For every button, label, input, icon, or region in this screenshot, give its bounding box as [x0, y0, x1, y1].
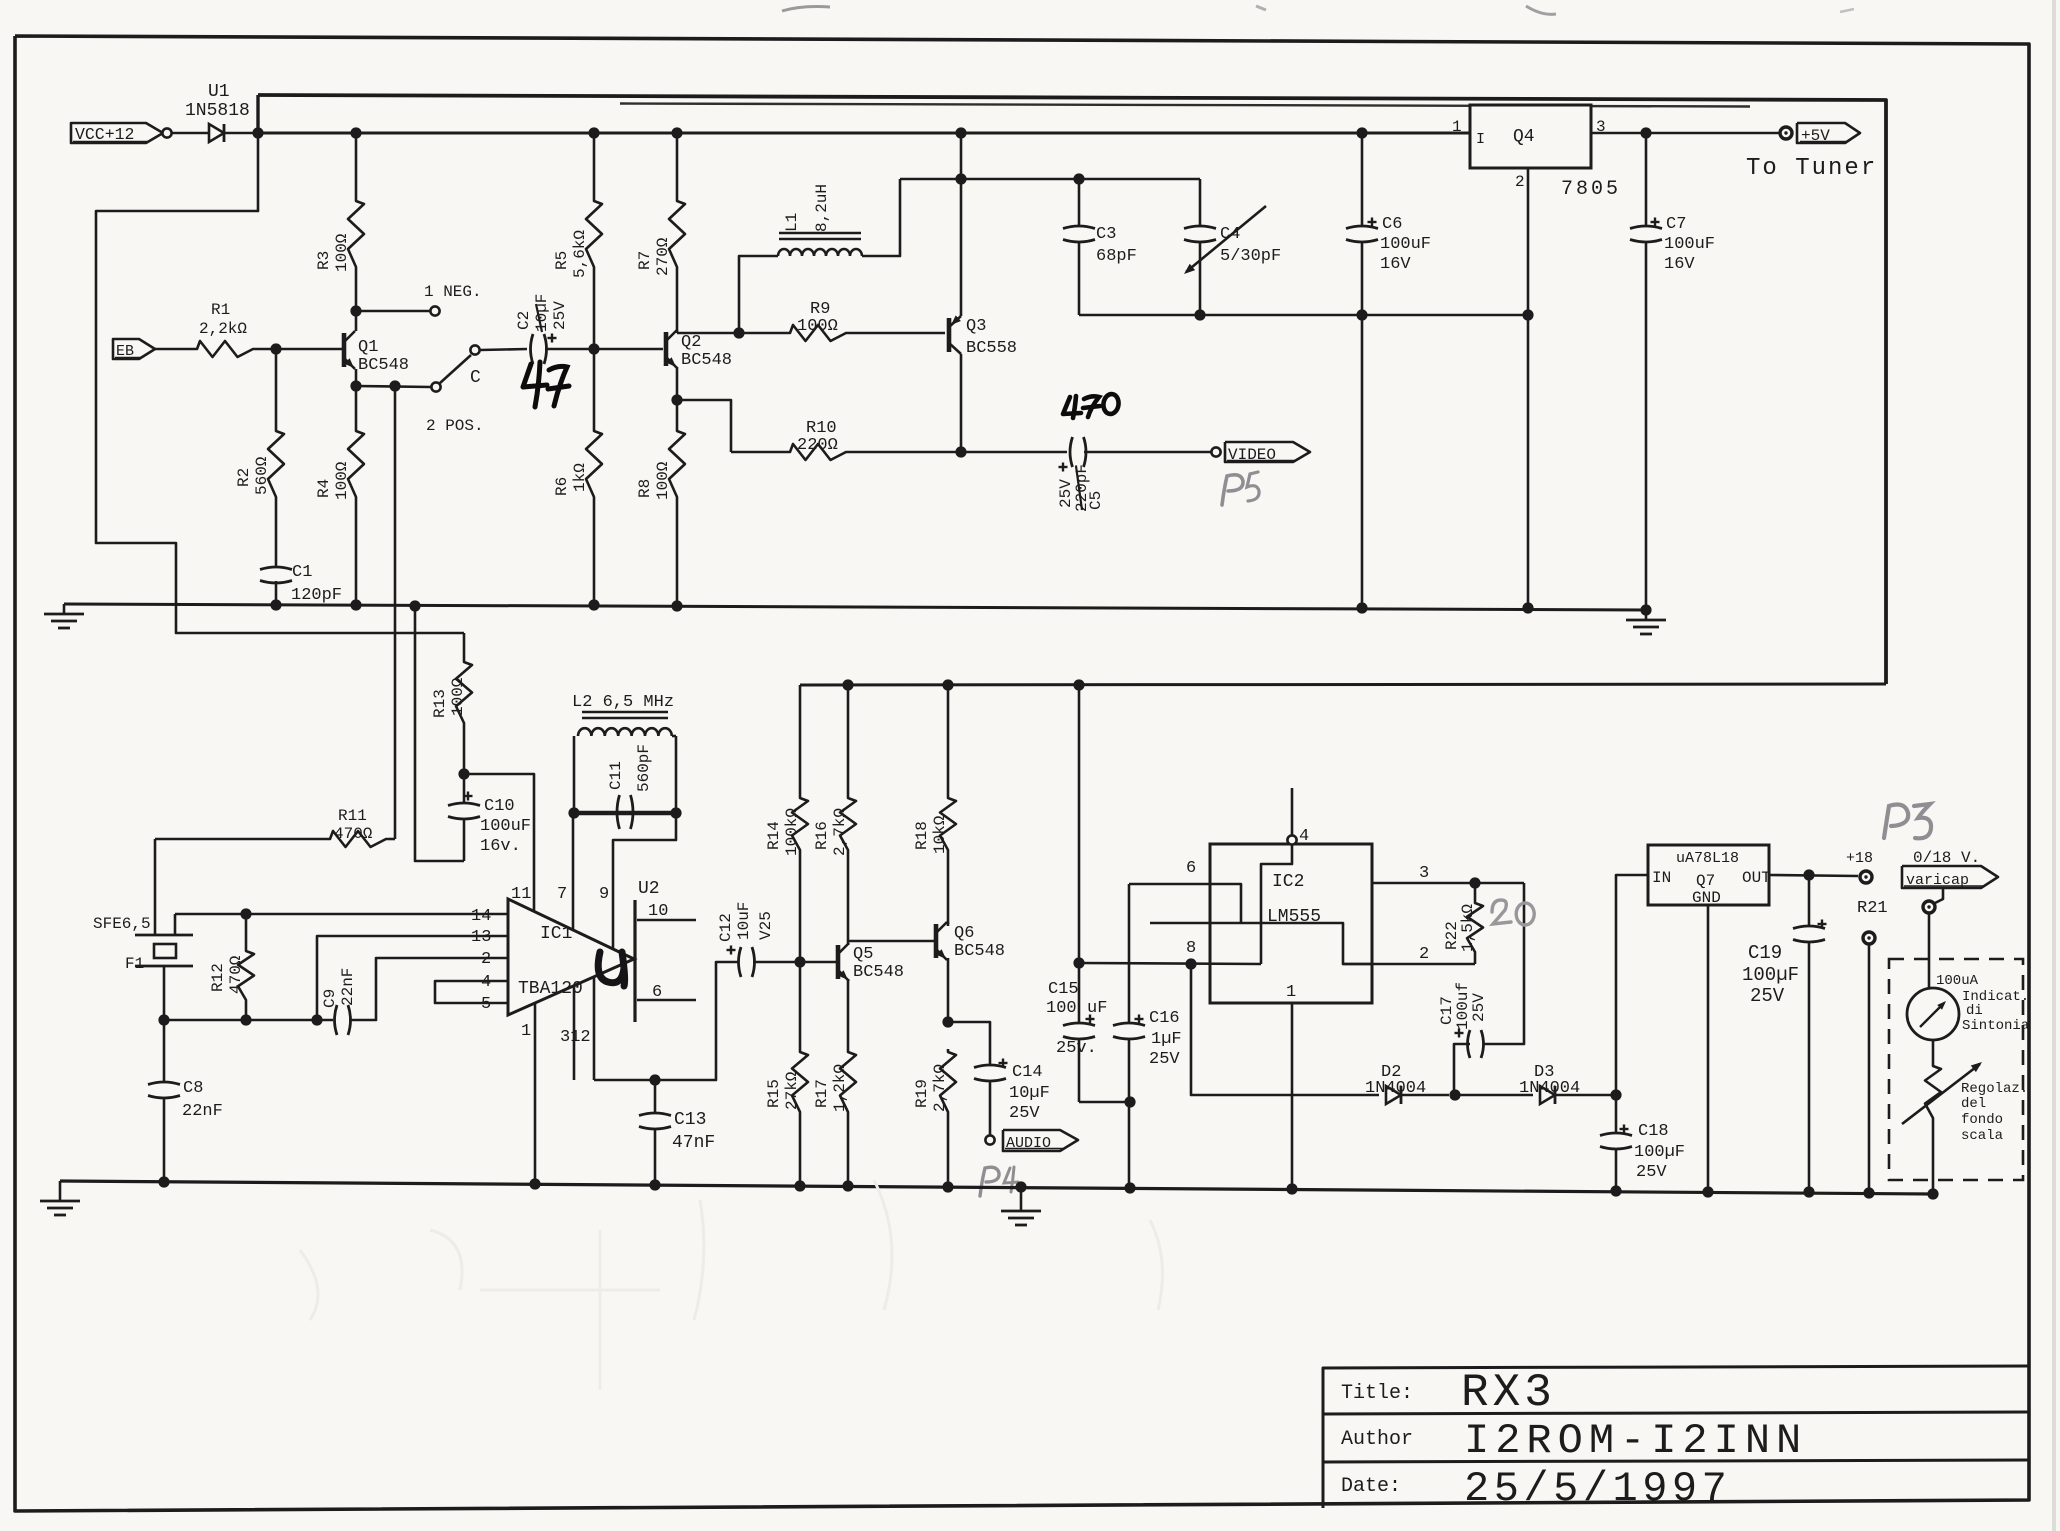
wire to IC1 pin11: [464, 774, 534, 911]
scan bleed-through: [300, 1180, 1163, 1390]
svg-text:1: 1: [1286, 983, 1296, 1002]
ink scribble correction: [598, 952, 624, 986]
capacitor C19 100uF 25V: [1808, 875, 1811, 926]
wire Q3 emitter to rail: [955, 127, 966, 138]
svg-text:25V: 25V: [1750, 985, 1785, 1007]
svg-text:R21: R21: [1857, 899, 1888, 918]
svg-text:BC548: BC548: [358, 356, 409, 375]
wire switch pos2 to R11: [394, 386, 397, 839]
node R13/C10: [458, 768, 469, 779]
svg-text:R18: R18: [913, 821, 931, 850]
transistor Q3 BC558 pnp: [947, 318, 952, 352]
svg-text:R19: R19: [913, 1079, 931, 1108]
svg-text:C8: C8: [183, 1079, 203, 1098]
resistor R16 2,7k: [847, 685, 850, 795]
svg-text:2: 2: [1515, 173, 1525, 191]
diode U1 1N5818: [209, 124, 224, 142]
handwritten P4: [980, 1167, 999, 1196]
svg-text:C10: C10: [484, 797, 515, 816]
svg-text:fondo: fondo: [1961, 1112, 2003, 1128]
svg-text:16V: 16V: [1380, 255, 1411, 274]
wire Q4 out to +5V: [1591, 132, 1780, 135]
svg-text:47nF: 47nF: [672, 1133, 715, 1153]
wire C16/pin8 drop to D2: [1191, 964, 1379, 1095]
svg-text:uF: uF: [1087, 999, 1107, 1018]
svg-text:U1: U1: [208, 82, 230, 102]
svg-text:Sintonia: Sintonia: [1962, 1018, 2029, 1034]
svg-text:100Ω: 100Ω: [449, 677, 467, 716]
IC2 LM555 box: [1210, 844, 1372, 1003]
IC1 pin 14 line: [175, 913, 508, 916]
svg-text:25V: 25V: [1636, 1163, 1667, 1182]
wire R9 net: [677, 332, 787, 335]
svg-text:C7: C7: [1666, 215, 1686, 234]
node R5/R6: [588, 343, 599, 354]
terminal +5V: [1780, 127, 1792, 139]
svg-text:3: 3: [1419, 864, 1429, 883]
wire Q4 pin2 to ground: [1527, 168, 1530, 607]
ground symbol lower left: [59, 1181, 62, 1201]
wire Q3 collector to video line: [960, 354, 963, 452]
svg-text:C11: C11: [607, 761, 625, 790]
svg-text:L1: L1: [783, 213, 801, 232]
svg-text:V25: V25: [757, 911, 775, 940]
IC1 pin 1 line: [534, 1003, 537, 1186]
svg-text:R7: R7: [636, 251, 654, 270]
svg-text:100uF: 100uF: [1380, 235, 1431, 254]
svg-text:100Ω: 100Ω: [333, 233, 351, 272]
IC1 pin 2 line: [349, 958, 508, 1020]
IC1 TBA120 triangle: [508, 899, 634, 1015]
wire Q6 base: [848, 940, 936, 943]
handwritten 20: [1492, 900, 1511, 924]
svg-text:100Ω: 100Ω: [333, 461, 351, 500]
svg-text:BC548: BC548: [954, 942, 1005, 961]
svg-text:C12: C12: [717, 913, 735, 942]
resistor R1 2,2k: [155, 348, 194, 351]
capacitor C5 (220pF crossed) 25V: [1070, 437, 1073, 467]
svg-text:7805: 7805: [1561, 178, 1621, 201]
node C19 top: [1803, 869, 1814, 880]
capacitor C1 120pF: [260, 567, 292, 570]
resistor R17 1,2k: [840, 1049, 856, 1115]
wire to Q2 base: [594, 348, 663, 351]
svg-text:5/30pF: 5/30pF: [1220, 247, 1281, 266]
wire Q7 gnd: [1707, 905, 1710, 1192]
node VCC junction: [252, 127, 263, 138]
svg-text:312: 312: [560, 1028, 591, 1047]
svg-text:C2: C2: [515, 311, 533, 330]
svg-text:100µF: 100µF: [1742, 964, 1799, 986]
resistor R2 560: [275, 349, 278, 428]
svg-text:Q6: Q6: [954, 924, 974, 943]
svg-text:Q3: Q3: [966, 317, 986, 336]
svg-text:C1: C1: [292, 563, 312, 582]
svg-text:4: 4: [481, 973, 491, 992]
wire emitter to switch: [356, 386, 431, 387]
svg-text:To Tuner: To Tuner: [1746, 155, 1877, 182]
svg-text:C9: C9: [321, 989, 339, 1008]
svg-text:14: 14: [471, 907, 491, 926]
AUDIO output tag: [1003, 1130, 1078, 1151]
svg-text:OUT: OUT: [1742, 869, 1771, 887]
resistor R13 100: [456, 659, 472, 726]
svg-text:Q1: Q1: [358, 338, 378, 357]
svg-text:560pF: 560pF: [635, 744, 653, 792]
resistor R9 100: [787, 325, 849, 341]
svg-text:100: 100: [1046, 999, 1077, 1018]
svg-text:470Ω: 470Ω: [227, 955, 245, 994]
terminal VCC: [162, 128, 171, 137]
ground symbol near C7: [1640, 604, 1651, 615]
svg-text:25V: 25V: [1149, 1050, 1180, 1069]
capacitor C7 100uF 16V: [1645, 133, 1648, 226]
transistor Q2 BC548: [664, 332, 669, 366]
svg-text:R5: R5: [553, 251, 571, 270]
IC2 pin 6 line: [1129, 883, 1210, 886]
wire top ground rail: [64, 604, 1646, 610]
IC2 pin 1 line: [1291, 1003, 1294, 1189]
svg-text:Author: Author: [1341, 1428, 1413, 1451]
node C7 top: [1640, 127, 1651, 138]
transistor Q1 BC548: [342, 333, 347, 367]
svg-text:C18: C18: [1638, 1122, 1669, 1141]
wire L2 tank bottom: [572, 811, 678, 816]
node L1 tap: [733, 327, 744, 338]
VIDEO output tag: [1225, 442, 1310, 462]
wire VCC +12 rail: [258, 132, 1470, 135]
svg-text:L2 6,5 MHz: L2 6,5 MHz: [572, 693, 674, 712]
svg-text:22nF: 22nF: [339, 968, 357, 1006]
node R1/R2: [270, 343, 281, 354]
tuning meter 100uA: [1907, 988, 1959, 1040]
svg-text:C4: C4: [1220, 225, 1240, 244]
svg-text:C15: C15: [1048, 980, 1079, 999]
IC1 pins 3,12 lines: [573, 986, 576, 1080]
node R12 top: [240, 908, 251, 919]
svg-text:120pF: 120pF: [291, 586, 342, 605]
resistor R19 2,7k: [940, 1049, 956, 1115]
svg-text:10µF: 10µF: [1009, 1084, 1050, 1103]
svg-text:RX3: RX3: [1461, 1367, 1556, 1419]
svg-text:di: di: [1966, 1003, 1983, 1019]
svg-text:9: 9: [599, 885, 609, 904]
capacitor C8 22nF: [163, 1020, 166, 1083]
wire F1 bottom net: [164, 1019, 333, 1022]
svg-text:1 NEG.: 1 NEG.: [424, 283, 482, 301]
switch C 2-pos: [431, 382, 440, 391]
svg-text:R11: R11: [338, 807, 367, 825]
svg-text:25V: 25V: [551, 301, 569, 330]
svg-text:5,6kΩ: 5,6kΩ: [571, 230, 589, 278]
svg-text:R16: R16: [813, 821, 831, 850]
wire switch to C2: [480, 349, 527, 350]
svg-text:R13: R13: [431, 689, 449, 718]
svg-text:IC1: IC1: [540, 924, 572, 944]
svg-text:scala: scala: [1961, 1128, 2003, 1144]
svg-text:R4: R4: [315, 479, 333, 498]
VCC+12 input tag: [71, 123, 163, 143]
svg-text:2,7kΩ: 2,7kΩ: [831, 808, 849, 856]
wire Q7 out to +18: [1769, 875, 1858, 876]
regulator Q7 uA78L18: [1648, 845, 1769, 905]
svg-text:100Ω: 100Ω: [797, 317, 838, 336]
node Q5 base net: [794, 956, 805, 967]
svg-text:8: 8: [1186, 939, 1196, 958]
capacitor C12 10uF: [739, 947, 742, 977]
svg-text:270Ω: 270Ω: [654, 237, 672, 276]
svg-text:1,5kΩ: 1,5kΩ: [1459, 904, 1477, 952]
svg-text:del: del: [1961, 1096, 1986, 1112]
svg-text:0/18 V.: 0/18 V.: [1913, 849, 1980, 867]
node C16 top: [1185, 958, 1196, 969]
wire varicap to meter node: [1935, 888, 1943, 903]
terminal 1 NEG: [430, 306, 439, 315]
EB input tag: [113, 339, 155, 359]
svg-text:25v.: 25v.: [1056, 1039, 1097, 1058]
IC2 internal steps: [1261, 845, 1292, 964]
svg-text:6: 6: [1186, 859, 1196, 878]
capacitor C2 (10uF crossed) 25V: [531, 334, 534, 364]
svg-text:27kΩ: 27kΩ: [783, 1071, 801, 1110]
svg-text:C13: C13: [674, 1110, 706, 1130]
svg-text:R17: R17: [813, 1079, 831, 1108]
wire to C14: [948, 1022, 990, 1065]
svg-text:R8: R8: [636, 479, 654, 498]
node C3 top line: [955, 173, 966, 184]
svg-text:8,2uH: 8,2uH: [813, 184, 831, 232]
title block: [1323, 1366, 2029, 1508]
capacitor C18 100uF 25V: [1615, 1095, 1618, 1133]
svg-text:C14: C14: [1012, 1063, 1043, 1082]
svg-text:470Ω: 470Ω: [334, 825, 373, 843]
svg-text:R15: R15: [765, 1079, 783, 1108]
IC1 pin 9 line: [613, 813, 676, 948]
svg-text:uA78L18: uA78L18: [1676, 850, 1739, 867]
transistor Q6 BC548: [934, 924, 939, 958]
svg-text:16v.: 16v.: [480, 837, 521, 856]
wire Q2 emitter to R10: [677, 400, 731, 452]
svg-text:22nF: 22nF: [182, 1102, 223, 1121]
svg-text:C: C: [470, 368, 481, 388]
capacitor C6 100uF 16V: [1356, 127, 1367, 138]
svg-text:100µF: 100µF: [1634, 1143, 1685, 1162]
svg-text:100kΩ: 100kΩ: [783, 808, 801, 856]
diode D2 1N4004: [1386, 1086, 1401, 1104]
capacitor C4 5/30pF trimmer: [1199, 179, 1202, 226]
wire 1 NEG: [356, 310, 430, 313]
svg-text:AUDIO: AUDIO: [1006, 1135, 1051, 1152]
svg-text:100Ω: 100Ω: [654, 461, 672, 500]
transistor Q5 BC548: [836, 945, 841, 979]
IC2 pin 4 reset stub: [1291, 788, 1294, 835]
svg-text:IN: IN: [1652, 869, 1671, 887]
svg-text:1N5818: 1N5818: [185, 101, 250, 121]
capacitor C9 22nF: [335, 1005, 338, 1035]
wire C10 ground drop: [415, 606, 464, 861]
IC1 pins 4-5 strap: [435, 981, 508, 1003]
svg-text:Regolaz.: Regolaz.: [1961, 1081, 2028, 1097]
wire VCC bypass jog to lower section: [96, 133, 464, 633]
resistor R14 100k: [792, 795, 808, 853]
svg-text:Date:: Date:: [1341, 1475, 1401, 1498]
svg-text:10uF: 10uF: [735, 902, 753, 940]
scan artifacts: [2052, 0, 2056, 1531]
svg-text:16V: 16V: [1664, 255, 1695, 274]
svg-text:5: 5: [481, 995, 491, 1014]
svg-text:13: 13: [471, 928, 491, 947]
terminal VIDEO: [1211, 447, 1220, 456]
svg-text:2: 2: [481, 950, 491, 969]
svg-text:GND: GND: [1692, 889, 1721, 907]
+5V tag To Tuner: [1797, 123, 1860, 143]
svg-text:25V: 25V: [1470, 993, 1488, 1022]
wire C3/C4 bottom line: [1079, 314, 1528, 317]
svg-text:1,2kΩ: 1,2kΩ: [831, 1064, 849, 1112]
resistor R4 100: [355, 386, 358, 428]
capacitor C13 47nF: [654, 1080, 657, 1113]
trimmer regolaz fondo scala: [1932, 1040, 1935, 1063]
wire D3 to regulator IN: [1616, 875, 1648, 1095]
svg-text:2: 2: [1419, 945, 1429, 964]
capacitor C15 100uF 25v: [1078, 685, 1081, 1023]
svg-text:1: 1: [521, 1022, 531, 1041]
regulator Q4 7805: [1470, 105, 1591, 168]
svg-text:Q4: Q4: [1513, 127, 1535, 147]
svg-text:C19: C19: [1748, 942, 1782, 964]
svg-text:1: 1: [1452, 118, 1462, 136]
ground symbol top left: [63, 604, 66, 614]
node D3 out: [1610, 1089, 1621, 1100]
svg-text:220Ω: 220Ω: [797, 436, 838, 455]
resistor R6 1k: [593, 349, 596, 428]
diode D3 1N4004: [1540, 1086, 1555, 1104]
svg-text:Title:: Title:: [1341, 1382, 1413, 1405]
node Q6 emitter: [942, 1016, 953, 1027]
svg-text:2,2kΩ: 2,2kΩ: [199, 320, 247, 338]
svg-text:BC548: BC548: [681, 351, 732, 370]
svg-text:C16: C16: [1149, 1009, 1180, 1028]
svg-text:10kΩ: 10kΩ: [931, 815, 949, 854]
svg-text:Q2: Q2: [681, 333, 701, 352]
svg-text:68pF: 68pF: [1096, 247, 1137, 266]
IC1 pin 13 line: [317, 936, 508, 1020]
resistor R3 100: [350, 127, 361, 138]
node C9 tap: [311, 1014, 322, 1025]
handwritten 47: [523, 364, 547, 387]
node R22 top: [1469, 877, 1480, 888]
svg-text:U2: U2: [638, 879, 660, 899]
IC2 pin 2 line: [1343, 963, 1475, 966]
wire R21 to ground: [1868, 944, 1871, 1193]
handwritten 470: [1063, 397, 1081, 414]
wire to Q1 base: [276, 348, 342, 351]
dashed meter box: [1889, 959, 2023, 1180]
node C13 tap: [649, 1074, 660, 1085]
svg-text:100uA: 100uA: [1936, 973, 1979, 989]
resistor R15 27k: [799, 962, 802, 1049]
wire VCC to diode: [172, 132, 209, 135]
IC1 pin 7 line: [572, 813, 575, 930]
capacitor C11 560pF: [617, 795, 620, 829]
wire pin3 to C17: [1484, 883, 1524, 1044]
svg-text:R2: R2: [235, 468, 253, 487]
svg-text:25V: 25V: [1009, 1104, 1040, 1123]
svg-text:IC2: IC2: [1272, 872, 1304, 892]
node Q1 collector: [350, 305, 361, 316]
capacitor C16 1uF 25V: [1128, 884, 1131, 1023]
svg-text:2,7kΩ: 2,7kΩ: [931, 1064, 949, 1112]
svg-text:2 POS.: 2 POS.: [426, 417, 484, 435]
svg-text:C6: C6: [1382, 215, 1402, 234]
node Q1 emitter: [350, 380, 361, 391]
svg-text:1kΩ: 1kΩ: [571, 463, 589, 492]
svg-text:25/5/1997: 25/5/1997: [1464, 1465, 1731, 1513]
svg-text:R6: R6: [553, 477, 571, 496]
svg-text:10µF: 10µF: [533, 294, 551, 332]
svg-text:100uF: 100uF: [480, 817, 531, 836]
svg-text:BC548: BC548: [853, 963, 904, 982]
node Q2 emitter: [671, 394, 682, 405]
capacitor C3 68pF: [1078, 179, 1081, 226]
svg-text:7: 7: [557, 885, 567, 904]
wire +12 lower rail: [799, 685, 802, 795]
svg-text:BC558: BC558: [966, 339, 1017, 358]
node C15/C16 bottom: [1124, 1096, 1135, 1107]
U2 discriminator: [633, 900, 636, 1022]
resistor R7 270: [671, 127, 682, 138]
svg-text:I: I: [1476, 131, 1485, 148]
wire IC1 output to C12: [594, 962, 739, 1080]
svg-text:4: 4: [1299, 827, 1309, 846]
wire C3/C4 top line: [900, 178, 1200, 181]
handwritten P3: [1884, 805, 1908, 838]
ground symbol audio: [1020, 1187, 1023, 1211]
node D2/D3/C17: [1449, 1089, 1460, 1100]
svg-text:560Ω: 560Ω: [253, 456, 271, 495]
terminal AUDIO: [985, 1135, 994, 1144]
svg-text:+18: +18: [1846, 850, 1873, 867]
svg-text:SFE6,5: SFE6,5: [93, 915, 151, 933]
capacitor C10 100uF 16v: [463, 774, 466, 803]
node switch branch: [389, 380, 400, 391]
svg-text:C3: C3: [1096, 225, 1116, 244]
svg-text:R1: R1: [211, 301, 230, 319]
capacitor C17 100uf 25V: [1468, 1030, 1471, 1058]
terminal +18: [1860, 871, 1872, 883]
wire lower ground rail: [60, 1181, 1933, 1194]
resistor R8 100: [676, 400, 679, 428]
resistor R5 5,6k: [588, 127, 599, 138]
svg-text:1µF: 1µF: [1151, 1030, 1182, 1049]
node C15/pin8: [1073, 957, 1084, 968]
handwritten P5: [1222, 475, 1243, 505]
resistor R11 470: [155, 838, 327, 841]
svg-text:100uF: 100uF: [1664, 235, 1715, 254]
svg-text:Q5: Q5: [853, 945, 873, 964]
resistor R10 220: [787, 444, 849, 460]
svg-text:Q7: Q7: [1696, 872, 1715, 890]
svg-text:I2ROM-I2INN: I2ROM-I2INN: [1464, 1417, 1807, 1465]
capacitor C14 10uF 25V: [974, 1065, 1006, 1068]
svg-text:F1: F1: [125, 955, 144, 973]
svg-text:R14: R14: [765, 821, 783, 850]
svg-text:25V: 25V: [1057, 479, 1075, 508]
svg-text:10: 10: [648, 902, 668, 921]
node F1 bottom: [158, 1014, 169, 1025]
IC2 pin 3 output line: [1372, 882, 1524, 885]
inductor L1 8,2uH: [779, 232, 861, 234]
